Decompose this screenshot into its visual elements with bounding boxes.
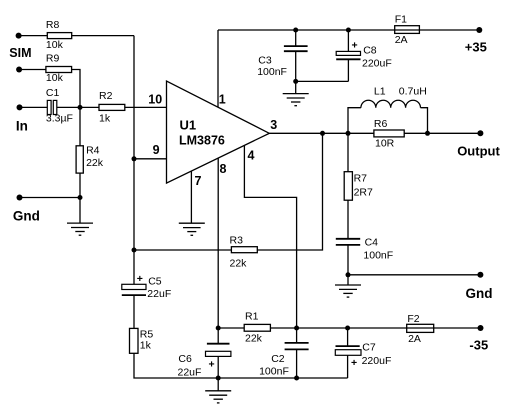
wire R4 stems [79,107,81,197]
terminal Gnd right [477,272,483,278]
node feedback tap [320,131,325,136]
wire R7 to C4 [347,200,349,239]
svg-text:F2: F2 [407,313,419,325]
svg-text:8: 8 [220,162,227,176]
svg-text:+: + [351,357,357,369]
wire feedback column vertical [133,36,135,285]
svg-text:1k: 1k [99,113,111,125]
svg-text:R4: R4 [86,145,100,157]
ground symbol bottom [205,378,231,403]
ground symbol under C3 [283,81,309,105]
terminal Output [477,130,483,136]
svg-text:C8: C8 [363,44,377,56]
svg-text:C1: C1 [46,87,60,99]
node LR left [346,131,351,136]
svg-text:-35: -35 [469,337,488,352]
svg-text:220uF: 220uF [362,58,392,70]
wire R7 stem top [347,133,349,171]
wire R5 to ground rail [134,353,348,378]
svg-text:22uF: 22uF [147,288,171,300]
svg-text:R6: R6 [374,118,388,130]
svg-text:In: In [16,119,28,134]
resistor R4 [76,146,83,173]
svg-text:C5: C5 [148,276,162,288]
svg-text:C6: C6 [178,353,192,365]
resistor R8 [47,33,71,39]
capacitor C3 [284,30,308,81]
svg-text:3.3µF: 3.3µF [46,113,73,125]
resistor R5 [130,328,139,353]
wire F2 to -35 [434,327,481,329]
svg-text:R3: R3 [230,235,244,247]
ground symbol left [67,198,93,236]
ground symbol under C4 [335,275,361,297]
wire SIM to R8 [19,35,48,37]
terminal In [17,104,23,110]
node A junction [78,105,83,110]
svg-text:R7: R7 [354,173,368,185]
capacitor C6 [206,328,231,378]
wire In to C1 [20,106,48,108]
terminal Gnd left [17,195,23,201]
svg-text:C3: C3 [258,55,272,67]
svg-text:+35: +35 [465,39,487,54]
resistor R9 [46,67,72,73]
wire C4 to Gnd right [348,274,480,276]
capacitor C1 [47,100,57,114]
wire pin3 output line [269,132,480,134]
svg-text:2A: 2A [395,34,408,46]
svg-text:3: 3 [270,118,277,132]
svg-text:R1: R1 [245,311,259,323]
wire R9 to corner down to node A [72,70,80,108]
svg-text:10R: 10R [375,138,395,150]
wire SIM2 to R9 [19,69,46,71]
ground symbol pin7 [179,223,205,235]
svg-text:Output: Output [457,144,500,159]
svg-text:100nF: 100nF [257,66,287,78]
fuse F1 [395,26,420,34]
node C6 bottom junction [216,376,221,381]
node C3 bottom junction [293,79,298,84]
svg-text:22k: 22k [86,157,104,169]
svg-text:Gnd: Gnd [13,208,40,223]
capacitor C4 [336,239,360,275]
wire R8 to feedback column [72,35,134,37]
wire pin7 stem [190,171,192,223]
wire pin4 path [244,145,296,328]
op-amp U1 triangle [167,81,270,183]
node LR right [425,131,430,136]
svg-text:2A: 2A [408,333,421,345]
node pin9 junction [132,156,137,161]
terminal +35 [476,27,482,33]
svg-text:1: 1 [219,92,226,106]
svg-text:2R7: 2R7 [354,187,373,199]
svg-text:22uF: 22uF [178,367,202,379]
node R3 rail junction [132,248,137,253]
resistor R2 [99,104,125,110]
node C2 bottom junction [294,376,299,381]
svg-text:R2: R2 [99,90,113,102]
terminal SIM lower [16,67,22,73]
capacitor C8 [336,30,360,81]
svg-text:+: + [352,40,358,52]
svg-text:10k: 10k [46,72,64,84]
wire pin9 [134,158,167,160]
svg-text:10k: 10k [46,39,64,51]
node pin8 rail junction [216,326,221,331]
svg-text:F1: F1 [395,14,407,26]
fuse F2 [407,324,434,332]
node pin4 rail junction [294,326,299,331]
svg-text:100nF: 100nF [363,249,393,261]
svg-text:22k: 22k [245,333,263,345]
svg-text:C4: C4 [365,236,379,248]
svg-text:C7: C7 [362,342,376,354]
svg-text:+: + [137,273,143,285]
resistor R1 [244,324,270,331]
inductor L1 [348,100,428,133]
svg-text:22k: 22k [230,258,248,270]
svg-text:7: 7 [195,174,202,188]
svg-text:9: 9 [153,143,160,157]
resistor R3 [231,247,257,253]
svg-text:SIM: SIM [9,46,31,60]
node C4 bottom junction [346,272,351,277]
svg-text:1k: 1k [140,339,152,351]
wire F1 to +35 [419,29,479,31]
resistor R6 [374,130,404,137]
capacitor C7 [335,328,361,378]
wire C1 to node A [57,106,99,108]
svg-text:4: 4 [248,149,255,163]
svg-text:10: 10 [148,92,162,106]
svg-text:LM3876: LM3876 [179,134,225,148]
svg-text:+: + [209,359,215,371]
svg-text:220uF: 220uF [362,355,392,367]
svg-text:C2: C2 [271,353,285,365]
node R4 bottom junction [78,195,83,200]
node C8 top junction [346,28,351,33]
wire R3 rail [134,249,231,251]
resistor R7 [344,172,352,201]
wire top rail [218,29,395,31]
svg-text:L1: L1 [374,86,386,98]
wire R3 to output riser [257,133,322,250]
capacitor C5 [122,284,146,328]
svg-text:0.7uH: 0.7uH [399,86,427,98]
wire C3 to C8 bottom [296,80,349,82]
terminal SIM upper [16,33,22,39]
wire R2 to pin10 [125,106,167,108]
svg-text:Gnd: Gnd [466,286,493,301]
wire pin1 vertical [217,30,219,107]
svg-text:100nF: 100nF [259,366,289,378]
capacitor C2 [285,328,309,378]
svg-text:U1: U1 [180,117,197,132]
wire Gnd left [20,197,81,199]
node C7 rail junction [345,326,350,331]
wire -35 rail [218,327,407,329]
svg-text:R9: R9 [46,53,60,65]
wire pin8 vertical [217,158,219,328]
svg-text:R8: R8 [46,19,60,31]
terminal -35 [478,325,484,331]
node C3 top junction [293,28,298,33]
